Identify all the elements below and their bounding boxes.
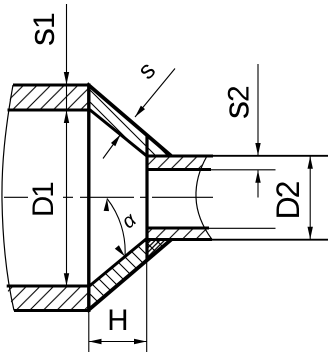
small pipe end face joint (145, 135, 148, 261)
hatch fill big pipe top wall (8, 85, 91, 110)
hatch fill cone bottom wall (88, 239, 171, 311)
alpha angle arc (107, 199, 125, 257)
s upper arrow (133, 106, 145, 119)
cone outer slant top (87, 84, 172, 157)
s2 dimension line lower tail (257, 170, 259, 197)
small pipe bottom wall outer edge thick (147, 238, 212, 241)
svg-text:s2: s2 (215, 85, 256, 119)
svg-text:H: H (107, 304, 128, 337)
big pipe top wall inner edge (8, 109, 91, 112)
s leader line upper (135, 69, 175, 118)
big pipe bottom wall outer edge (14, 309, 91, 312)
small pipe break line (196, 156, 212, 240)
big pipe end face joint (87, 84, 90, 313)
svg-text:s1: s1 (21, 12, 62, 46)
cone inner slant bottom (90, 239, 147, 286)
svg-text:D1: D1 (27, 183, 60, 217)
big pipe bottom wall inner edge (7, 285, 91, 288)
H arrow right (134, 339, 147, 344)
big pipe break line left (2, 85, 14, 311)
H extension line right (146, 241, 148, 352)
hatch fill small pipe bottom wall (147, 228, 212, 240)
s1 arrow down at outer wall (64, 72, 69, 85)
s2 arrow up (255, 170, 260, 183)
D2 dimension line (309, 156, 311, 240)
H extension line left (88, 312, 90, 352)
hatch fill cone top wall (88, 85, 171, 157)
s2 dimension line upper (257, 64, 259, 156)
small pipe top wall outer edge thin (213, 155, 328, 157)
D2 arrow up (308, 156, 313, 169)
s1 D1 dimension line (66, 4, 68, 286)
H dimension line (89, 341, 147, 343)
small pipe bottom wall inner edge thick (147, 227, 209, 230)
D1 arrow down at inner bottom (64, 273, 69, 286)
D2 arrow down (308, 227, 313, 240)
cone inner slant top (90, 110, 147, 156)
small pipe top wall inner edge thick (147, 168, 211, 171)
small pipe bottom wall inner edge thin (209, 227, 276, 229)
alpha arc arrow top (104, 198, 110, 211)
big pipe top wall outer edge (13, 84, 91, 87)
cone outer slant bottom (87, 239, 172, 311)
s lower arrow (111, 133, 123, 146)
s2 arrow down (255, 143, 260, 156)
hatch fill small pipe top wall (147, 156, 207, 170)
svg-text:D2: D2 (270, 181, 306, 219)
s1 D1 shared arrow up at inner wall (64, 111, 69, 124)
small pipe top wall inner edge thin (211, 169, 276, 171)
small pipe bottom wall outer edge thin (212, 239, 328, 241)
s leader line lower (103, 135, 121, 159)
alpha arc arrow bottom (115, 245, 127, 258)
H arrow left (89, 339, 102, 344)
weld sliver bottom dense hatch (147, 240, 171, 261)
centerline axis (4, 196, 213, 198)
small pipe top wall outer edge thick (147, 155, 213, 158)
hatch fill big pipe bottom wall (7, 286, 91, 311)
